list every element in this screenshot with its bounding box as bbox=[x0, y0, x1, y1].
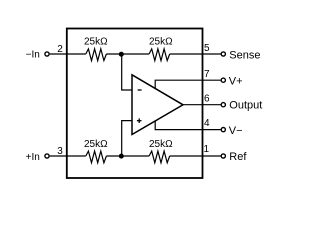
svg-text:5: 5 bbox=[204, 43, 210, 54]
svg-text:25kΩ: 25kΩ bbox=[149, 36, 173, 47]
svg-text:2: 2 bbox=[57, 44, 63, 55]
svg-text:−In: −In bbox=[26, 50, 40, 61]
svg-text:Ref: Ref bbox=[229, 151, 247, 163]
svg-text:25kΩ: 25kΩ bbox=[149, 139, 173, 150]
svg-text:7: 7 bbox=[204, 69, 210, 80]
svg-text:25kΩ: 25kΩ bbox=[84, 139, 108, 150]
svg-text:Sense: Sense bbox=[229, 49, 260, 61]
svg-text:+In: +In bbox=[26, 152, 40, 163]
svg-text:4: 4 bbox=[204, 118, 210, 129]
svg-text:3: 3 bbox=[57, 146, 63, 157]
svg-text:1: 1 bbox=[203, 144, 209, 155]
svg-text:25kΩ: 25kΩ bbox=[84, 36, 108, 47]
svg-text:6: 6 bbox=[204, 93, 210, 104]
svg-text:V+: V+ bbox=[229, 76, 243, 88]
svg-text:V−: V− bbox=[229, 125, 243, 137]
svg-text:Output: Output bbox=[229, 100, 262, 112]
